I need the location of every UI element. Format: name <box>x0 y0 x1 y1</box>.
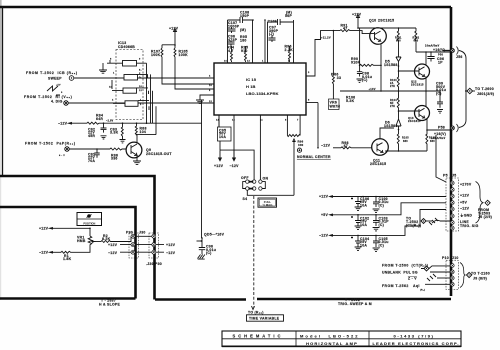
svg-text:TO (R₂₂): TO (R₂₂) <box>248 311 264 315</box>
svg-text:11: 11 <box>109 87 112 89</box>
svg-text:(J): (J) <box>269 32 274 36</box>
svg-text:⏚GND: ⏚GND <box>460 212 472 217</box>
svg-text:C109: C109 <box>268 19 277 23</box>
svg-text:J6 (2/9): J6 (2/9) <box>478 215 492 219</box>
svg-text:+12V: +12V <box>319 195 329 199</box>
svg-text:+5V: +5V <box>460 200 467 204</box>
svg-text:−12V: −12V <box>460 206 470 210</box>
svg-text:16: 16 <box>209 85 212 87</box>
svg-text:2SC1815: 2SC1815 <box>378 18 394 22</box>
svg-text:H & SLOPE: H & SLOPE <box>99 303 120 307</box>
svg-text:OFF: OFF <box>241 176 249 180</box>
svg-text:FROM T-2502 RI (V₅₂): FROM T-2502 RI (V₅₂) <box>24 95 72 99</box>
svg-text:IC 15: IC 15 <box>246 77 257 82</box>
svg-text:P10: P10 <box>442 256 449 260</box>
svg-text:16: 16 <box>224 61 227 63</box>
svg-text:(C): (C) <box>436 92 442 96</box>
svg-text:680: 680 <box>430 140 435 143</box>
svg-text:12: 12 <box>139 90 142 92</box>
svg-text:2SC1815: 2SC1815 <box>408 119 421 123</box>
svg-text:+12V: +12V <box>214 164 224 168</box>
svg-text:330: 330 <box>298 143 304 147</box>
svg-text:SWEEP: SWEEP <box>48 77 62 81</box>
svg-text:FROM T-2500 (CT(R₂)): FROM T-2500 (CT(R₂)) <box>382 263 428 267</box>
svg-text:+5V: +5V <box>56 85 61 87</box>
svg-text:P58: P58 <box>438 126 445 130</box>
svg-text:2SC1815-OUT: 2SC1815-OUT <box>146 152 172 156</box>
svg-text:J56: J56 <box>456 55 463 59</box>
svg-text:+5V: +5V <box>321 213 328 217</box>
svg-text:(M): (M) <box>240 28 246 32</box>
svg-text:S4: S4 <box>243 197 248 201</box>
svg-text:4. DIG: 4. DIG <box>51 100 63 104</box>
svg-text:J801(3/9): J801(3/9) <box>477 92 494 96</box>
svg-text:27K: 27K <box>390 105 395 108</box>
svg-text:910R: 910R <box>351 60 361 64</box>
svg-text:QD5—*16V: QD5—*16V <box>204 233 225 237</box>
svg-text:13: 13 <box>247 61 250 63</box>
svg-text:(C): (C) <box>379 243 385 247</box>
svg-text:TRIG. SIG: TRIG. SIG <box>460 224 479 228</box>
svg-text:+11.2V: +11.2V <box>321 36 331 40</box>
svg-text:POSITION: POSITION <box>83 222 95 225</box>
svg-text:H 1B: H 1B <box>246 84 256 89</box>
svg-text:8₄: 8₄ <box>139 70 142 72</box>
svg-text:64R: 64R <box>96 117 103 121</box>
svg-text:45R: 45R <box>88 134 95 138</box>
svg-text:FROM T-2562 AqI: FROM T-2562 AqI <box>382 284 420 288</box>
svg-text:100K: 100K <box>179 53 189 57</box>
svg-text:P30: P30 <box>126 231 133 235</box>
svg-text:(C): (C) <box>379 223 385 227</box>
svg-text:(C): (C) <box>206 251 212 255</box>
svg-text:.J30: .J30 <box>146 262 154 266</box>
svg-text:10A: 10A <box>219 135 226 139</box>
svg-text:LBO-1334-KPRK: LBO-1334-KPRK <box>246 91 279 96</box>
svg-text:Model LBO-522: Model LBO-522 <box>300 334 360 339</box>
svg-text:P5: P5 <box>443 173 448 177</box>
svg-text:+10V: +10V <box>369 87 376 91</box>
svg-text:TO T-2160: TO T-2160 <box>471 271 490 275</box>
svg-text:J5: J5 <box>452 173 456 177</box>
svg-text:2SC1815: 2SC1815 <box>411 82 424 86</box>
svg-text:1S1588: 1S1588 <box>384 63 398 67</box>
svg-text:UNBLANK PUL SG: UNBLANK PUL SG <box>382 270 418 274</box>
svg-text:−12V: −12V <box>230 164 240 168</box>
svg-text:FROM T-2502 PaP(R₅₂): FROM T-2502 PaP(R₅₂) <box>25 141 76 145</box>
svg-text:−12V: −12V <box>39 251 49 255</box>
svg-text:W87H: W87H <box>330 104 341 108</box>
svg-text:27K: 27K <box>390 85 395 88</box>
svg-text:SCHEMATIC: SCHEMATIC <box>232 334 283 339</box>
svg-text:336: 336 <box>111 157 118 161</box>
svg-text:−12V: −12V <box>166 251 176 255</box>
svg-text:(C): (C) <box>379 203 385 207</box>
svg-text:HORIZONTAL AMP: HORIZONTAL AMP <box>306 341 358 346</box>
svg-text:+12V: +12V <box>460 194 470 198</box>
svg-text:10: 10 <box>139 86 142 88</box>
svg-text:150P: 150P <box>240 14 250 18</box>
svg-text:+12V: +12V <box>108 243 118 247</box>
svg-text:FROM T-2502 ICB (R₅₂): FROM T-2502 ICB (R₅₂) <box>26 71 78 75</box>
svg-text:−12V: −12V <box>321 144 331 148</box>
svg-text:100K: 100K <box>151 53 161 57</box>
svg-text:+12V: +12V <box>39 227 49 231</box>
svg-text:HMB: HMB <box>77 239 86 243</box>
svg-text:−12V: −12V <box>108 251 118 255</box>
svg-text:4 - V: 4 - V <box>59 154 65 157</box>
svg-text:½ MAG: ½ MAG <box>263 203 274 207</box>
svg-text:10mA/5mV: 10mA/5mV <box>431 137 446 140</box>
svg-text:J9 (8/9): J9 (8/9) <box>473 276 487 280</box>
svg-text:−12V: −12V <box>58 122 68 126</box>
svg-text:P56: P56 <box>438 53 443 56</box>
svg-text:ON: ON <box>263 176 269 180</box>
svg-text:NORMAL CENTER: NORMAL CENTER <box>297 155 331 159</box>
svg-text:Z - V: Z - V <box>408 277 417 281</box>
svg-text:3ₗ: 3ₗ <box>139 76 141 79</box>
svg-text:2SC1815: 2SC1815 <box>370 162 386 166</box>
svg-text:33: 33 <box>337 76 341 80</box>
svg-text:TO T-2600: TO T-2600 <box>475 87 494 91</box>
svg-text:TRIG. SWEEP & M: TRIG. SWEEP & M <box>338 302 372 306</box>
svg-text:910: 910 <box>241 49 248 53</box>
svg-text:473P: 473P <box>228 38 238 42</box>
svg-text:1P: 1P <box>438 60 443 64</box>
svg-text:5.3K: 5.3K <box>346 99 355 103</box>
svg-text:0-1433 (7/9): 0-1433 (7/9) <box>394 334 435 339</box>
svg-text:70A: 70A <box>88 159 95 163</box>
svg-text:−2.8V: −2.8V <box>106 120 114 122</box>
svg-text:3.3K: 3.3K <box>110 131 119 135</box>
svg-text:TIME VARIABLE: TIME VARIABLE <box>249 317 280 321</box>
svg-text:(C): (C) <box>362 78 368 82</box>
svg-text:180: 180 <box>240 38 247 42</box>
svg-text:10mA/5mV: 10mA/5mV <box>425 44 440 47</box>
svg-text:680: 680 <box>403 140 408 143</box>
svg-text:Q10: Q10 <box>369 18 376 22</box>
svg-text:LEADER ELECTRONICS CORP.: LEADER ELECTRONICS CORP. <box>373 341 460 346</box>
svg-text:J10: J10 <box>452 256 459 260</box>
svg-text:−12V: −12V <box>319 234 329 238</box>
svg-text:+12V: +12V <box>166 243 176 247</box>
svg-text:+270V: +270V <box>460 183 472 187</box>
svg-text:J30: J30 <box>139 231 146 235</box>
svg-text:1000P: 1000P <box>228 24 240 28</box>
svg-text:+12V: +12V <box>352 12 362 16</box>
svg-text:1.8K: 1.8K <box>63 257 72 261</box>
svg-text:(R₂): (R₂) <box>420 289 425 291</box>
svg-text:P30: P30 <box>155 262 162 266</box>
svg-text:12: 12 <box>209 101 212 103</box>
svg-text:(M): (M) <box>286 11 292 15</box>
svg-text:104: 104 <box>140 130 147 134</box>
svg-text:CD4066B: CD4066B <box>118 45 135 49</box>
